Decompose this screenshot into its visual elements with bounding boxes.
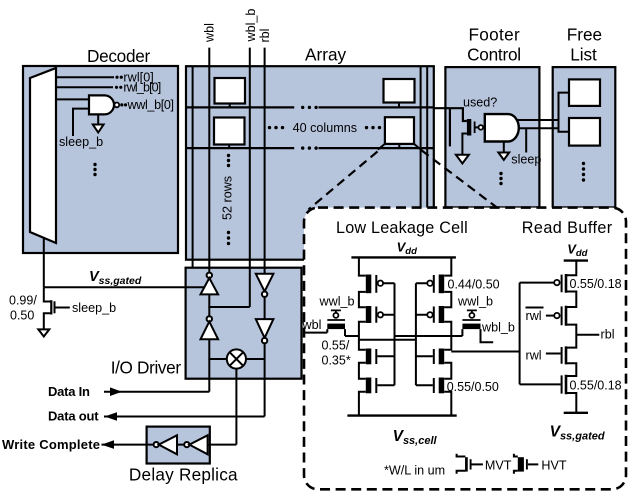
svg-text:0.55/0.18: 0.55/0.18: [570, 379, 622, 393]
svg-text:used?: used?: [463, 96, 497, 110]
svg-text:0.55/0.18: 0.55/0.18: [570, 277, 622, 291]
svg-text:Data out: Data out: [48, 409, 99, 424]
svg-text:wbl: wbl: [202, 23, 216, 43]
svg-text:52 rows: 52 rows: [221, 176, 235, 220]
svg-text:Free: Free: [567, 25, 602, 45]
svg-text:wbl_b: wbl_b: [481, 321, 515, 335]
svg-text:Decoder: Decoder: [87, 46, 150, 66]
svg-text:Data In: Data In: [48, 384, 90, 399]
svg-text:wwl_b: wwl_b: [457, 295, 493, 309]
svg-text:rbl: rbl: [258, 29, 272, 43]
svg-text:40 columns: 40 columns: [293, 121, 357, 135]
svg-text:Footer: Footer: [469, 25, 520, 45]
svg-text:0.35*: 0.35*: [322, 354, 351, 368]
svg-text:sleep: sleep: [511, 153, 541, 167]
svg-text:sleep_b: sleep_b: [59, 135, 103, 149]
svg-text:rwl: rwl: [526, 349, 542, 363]
svg-text:rbl: rbl: [601, 328, 615, 342]
svg-text:0.99/: 0.99/: [9, 294, 37, 308]
svg-text:Read Buffer: Read Buffer: [522, 219, 613, 237]
svg-text:0.50: 0.50: [10, 309, 34, 323]
svg-text:Control: Control: [467, 45, 521, 65]
svg-text:I/O Driver: I/O Driver: [111, 358, 182, 378]
svg-text:rwl_b[0]: rwl_b[0]: [123, 81, 161, 95]
svg-text:sleep_b: sleep_b: [72, 301, 116, 315]
svg-text:Array: Array: [305, 44, 347, 64]
svg-text:0.55/0.50: 0.55/0.50: [447, 380, 499, 394]
svg-text:Write Complete: Write Complete: [2, 437, 100, 452]
svg-text:wbl: wbl: [302, 318, 322, 332]
svg-text:HVT: HVT: [541, 459, 566, 473]
svg-text:Delay Replica: Delay Replica: [129, 465, 238, 485]
svg-text:List: List: [570, 45, 597, 65]
svg-text:MVT: MVT: [485, 459, 512, 473]
svg-text:0.44/0.50: 0.44/0.50: [448, 278, 500, 292]
svg-text:wwl_b[0]: wwl_b[0]: [127, 98, 175, 112]
svg-text:wwl_b: wwl_b: [319, 295, 355, 309]
svg-text:0.55/: 0.55/: [322, 339, 350, 353]
svg-text:*W/L in um: *W/L in um: [384, 464, 445, 478]
svg-text:Low Leakage Cell: Low Leakage Cell: [336, 219, 468, 237]
svg-text:rwl: rwl: [526, 309, 542, 323]
svg-text:wbl_b: wbl_b: [244, 9, 258, 43]
